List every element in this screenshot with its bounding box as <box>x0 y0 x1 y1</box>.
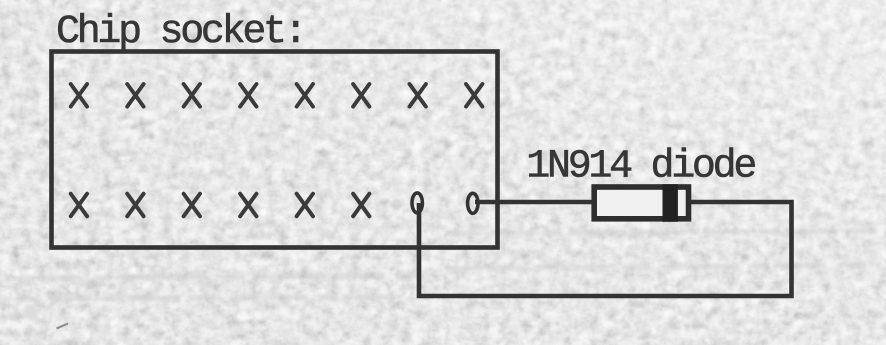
svg-text:Chip socket:: Chip socket: <box>56 10 304 55</box>
svg-text:1N914 diode: 1N914 diode <box>526 144 755 189</box>
